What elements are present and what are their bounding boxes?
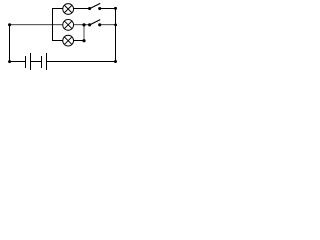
lamp L1 [63, 4, 74, 15]
wire: right vertical [115, 8, 117, 62]
wire: switch S2 to right vertical [100, 24, 116, 26]
node: bottom right corner [114, 60, 117, 63]
wire: branch 1 left segment [52, 8, 63, 10]
wire: switch S1 to top right corner [100, 8, 116, 10]
wire: left riser connecting branch 1 and branch 3 [52, 8, 54, 41]
node B: link bottom junction [82, 39, 85, 42]
wire: battery inter-cell stub [30, 61, 42, 63]
battery plate long (pos) cell 2 [46, 53, 48, 70]
wire: battery to bottom right corner [46, 61, 116, 63]
battery plate short (neg) cell 1 [25, 56, 27, 68]
switch S1 [88, 3, 101, 10]
wire: lamp L1 to switch S1 [74, 8, 90, 10]
wire: branch 3 left segment [52, 40, 63, 42]
wire: main horizontal, node to lamp L2 [9, 24, 63, 26]
node: top right corner [114, 7, 117, 10]
wire: vertical link node A to node B [83, 25, 85, 41]
lamp L2 [63, 19, 74, 30]
wire: lamp L3 to node B [74, 40, 85, 42]
node A: link top junction [82, 23, 85, 26]
battery B1 [26, 53, 47, 70]
lamp L3 [63, 35, 74, 46]
wire: lamp L2 to switch S2 [74, 24, 90, 26]
node: bottom left corner [8, 60, 11, 63]
battery plate long (pos) cell 1 [30, 53, 32, 70]
battery plate short (neg) cell 2 [41, 56, 43, 68]
wire: bottom left to battery [9, 61, 26, 63]
wire: left vertical [9, 24, 11, 62]
switch S2 [88, 20, 101, 27]
node: right middle junction [114, 23, 117, 26]
node: left junction of main wire and left vertical [8, 23, 11, 26]
